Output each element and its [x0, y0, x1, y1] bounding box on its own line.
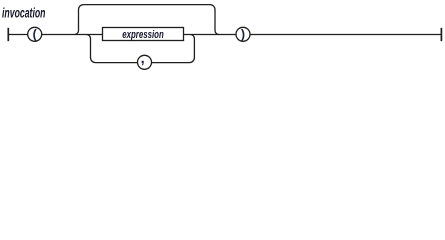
terminal circle: ) [236, 27, 250, 41]
svg-text:invocation: invocation [2, 5, 46, 21]
wire: circle ) to end terminal [250, 34, 441, 36]
svg-text:expression: expression [122, 29, 164, 41]
svg-text:,: , [141, 51, 145, 67]
start terminal bar [7, 28, 9, 41]
wire: circle ( to expression box [42, 34, 103, 36]
wire: repeat loop bottom-right branch [152, 35, 195, 63]
wire: expression box to circle ) [184, 34, 237, 36]
nonterminal box: expression [103, 28, 184, 41]
terminal circle: ( [28, 27, 42, 41]
wire: bypass loop over the top [75, 5, 220, 35]
wire: start line segment [8, 34, 28, 36]
terminal circle: , separator [138, 55, 152, 69]
wire: repeat loop bottom-left branch [87, 35, 138, 63]
svg-text:): ) [241, 28, 245, 42]
end terminal bar [440, 28, 442, 41]
